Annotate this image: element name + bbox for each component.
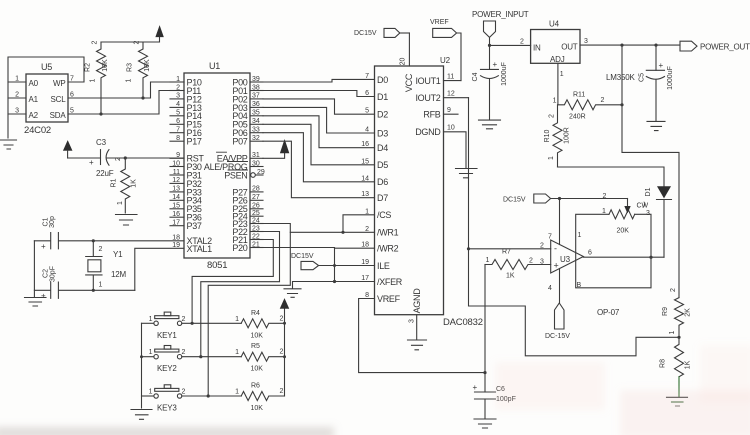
svg-text:P20: P20 [232, 243, 247, 253]
svg-text:D5: D5 [377, 160, 388, 170]
node OUT/C5 junction [654, 44, 657, 47]
ground (C6) [474, 419, 496, 428]
ground (keys) [131, 410, 152, 420]
svg-text:+: + [41, 292, 46, 301]
U1 pin 12 P32 [170, 177, 202, 189]
svg-text:10K: 10K [144, 59, 151, 72]
svg-text:1: 1 [560, 71, 564, 78]
svg-text:19: 19 [172, 242, 180, 249]
svg-text:DC15V: DC15V [291, 253, 314, 260]
svg-text:D0: D0 [377, 75, 388, 85]
svg-text:100R: 100R [564, 127, 571, 144]
node IOUT2 branch junction [467, 247, 470, 250]
svg-text:36: 36 [252, 101, 260, 108]
U1 pin 36 P03 [232, 101, 263, 113]
wire feedback divider branch [469, 249, 679, 356]
wire bus P04 to D4 [263, 116, 375, 148]
svg-text:240R: 240R [569, 114, 586, 121]
wire R2/R3 tops to VCC [101, 37, 160, 42]
svg-text:ILE: ILE [377, 261, 390, 271]
svg-text:2: 2 [176, 84, 180, 91]
svg-text:7: 7 [70, 76, 74, 83]
U3 pin 7 supply wire [548, 199, 560, 245]
svg-text:3: 3 [176, 93, 180, 100]
U2 pin 6 D1 (label) [365, 90, 388, 102]
wire bus P02 to D2 [263, 99, 375, 114]
switch KEY3 [142, 385, 242, 413]
node C6/R7 junction [483, 371, 486, 374]
svg-text:-: - [554, 244, 557, 254]
svg-text:2: 2 [115, 157, 122, 161]
svg-text:CW: CW [637, 203, 649, 210]
svg-text:1: 1 [602, 208, 606, 215]
svg-text:6: 6 [70, 92, 74, 99]
svg-text:2: 2 [182, 316, 186, 323]
svg-text:1: 1 [117, 201, 124, 205]
svg-text:R5: R5 [251, 343, 260, 350]
svg-text:22: 22 [252, 233, 260, 240]
U1 pin 26 P25 [232, 203, 263, 215]
svg-text:IN: IN [533, 44, 541, 53]
U2 pin 5 D2 (label) [365, 108, 388, 120]
svg-text:1: 1 [669, 330, 676, 334]
capacitor C1 30p [34, 216, 184, 251]
svg-text:DC15V: DC15V [354, 30, 377, 37]
svg-text:C4: C4 [472, 72, 479, 81]
capacitor C4 1000uF [472, 60, 508, 120]
U5 pin 3 stub [8, 108, 26, 115]
resistor R4 10K [235, 310, 284, 340]
svg-text:11: 11 [173, 169, 180, 176]
wire bus P03 to D3 [263, 107, 375, 133]
svg-text:1K: 1K [131, 179, 138, 188]
svg-text:14: 14 [172, 194, 180, 201]
wire P22 to key2 rail [201, 232, 280, 357]
svg-text:2: 2 [549, 114, 556, 118]
svg-text:37: 37 [252, 93, 260, 100]
svg-text:1000uF: 1000uF [667, 66, 674, 90]
svg-text:15: 15 [361, 158, 369, 165]
U1 pin 38 P01 [232, 84, 263, 96]
connector DC15V (mid) [291, 253, 375, 270]
svg-text:+: + [41, 242, 46, 251]
U2 pin 12 IOUT2 [415, 91, 468, 104]
U2 pin 10 DGND [415, 125, 466, 168]
svg-text:KEY3: KEY3 [157, 404, 177, 413]
svg-text:1000uF: 1000uF [501, 62, 508, 86]
svg-text:P37: P37 [187, 221, 202, 231]
node KEY2 left rail junction [140, 355, 143, 358]
svg-text:PSEN: PSEN [224, 170, 247, 180]
svg-text:AGND: AGND [412, 288, 422, 314]
resistor R11 240R [553, 92, 622, 121]
node tie/ILE junction [333, 264, 336, 267]
wire /CS branch [343, 215, 375, 233]
capacitor C6 100pF [473, 373, 516, 419]
connector POWER_INPUT [472, 10, 529, 69]
svg-text:R1: R1 [111, 178, 118, 187]
resistor R7 1K [485, 249, 551, 280]
wire /XFER to ground [293, 282, 375, 289]
svg-text:30p: 30p [49, 216, 56, 228]
svg-text:LM350K: LM350K [606, 73, 635, 82]
svg-text:D7: D7 [377, 193, 388, 203]
svg-text:VREF: VREF [377, 294, 401, 304]
svg-text:35: 35 [252, 110, 260, 117]
U1 pin 30 ALE/PROG [204, 160, 263, 172]
svg-text:13: 13 [172, 186, 180, 193]
U1 pin 29 PSEN [224, 169, 265, 181]
svg-text:1: 1 [235, 349, 239, 356]
U2 pin 15 D5 (label) [361, 158, 388, 170]
resistor R2 10K pull-up [85, 40, 110, 114]
svg-text:1: 1 [176, 76, 180, 83]
wire SDA net: U5 pin5 to P11 [68, 91, 184, 115]
U1 pin 14 P34 [170, 194, 202, 206]
svg-text:17: 17 [361, 275, 369, 282]
svg-text:1: 1 [553, 98, 557, 105]
svg-text:XTAL1: XTAL1 [187, 244, 213, 254]
svg-text:R7: R7 [502, 249, 511, 256]
svg-text:34: 34 [252, 118, 260, 125]
U1 pin 9 RST [170, 152, 204, 164]
svg-text:13: 13 [361, 191, 369, 198]
node POWER_INPUT/IN junction [488, 44, 491, 47]
U1 pin 21 P20 [232, 241, 263, 253]
U1 pin 6 P15 [170, 118, 202, 130]
connector POWER_OUT [680, 41, 750, 51]
svg-text:OP-07: OP-07 [597, 308, 620, 317]
svg-text:R6: R6 [251, 383, 260, 390]
U1 pin 5 P14 [170, 110, 202, 122]
node crystal top junction [92, 239, 95, 242]
eeprom U5 24C02 [24, 62, 68, 136]
svg-text:IOUT2: IOUT2 [415, 93, 440, 103]
svg-text:1: 1 [149, 349, 153, 356]
svg-text:4: 4 [548, 285, 552, 292]
U1 pin 28 P27 [232, 186, 263, 198]
svg-text:C2: C2 [43, 269, 50, 278]
node R1/RST junction [124, 156, 127, 159]
wire XTAL1 [135, 248, 184, 290]
node OUT/branch junction [620, 44, 623, 47]
svg-text:1: 1 [149, 389, 153, 396]
svg-text:2: 2 [529, 258, 533, 265]
svg-text:10K: 10K [251, 332, 264, 339]
svg-text:R9: R9 [662, 307, 669, 316]
svg-text:24C02: 24C02 [24, 125, 51, 136]
U1 pin 8 P17 [170, 135, 202, 147]
svg-text:POWER_INPUT: POWER_INPUT [472, 10, 529, 19]
svg-text:P17: P17 [187, 137, 202, 147]
power VCC arrow (top left) [156, 26, 164, 37]
U1 pin 7 P16 [170, 127, 202, 139]
svg-text:VCC: VCC [404, 73, 414, 92]
svg-text:3: 3 [15, 108, 19, 115]
connector VREF [430, 19, 461, 81]
svg-text:+: + [554, 261, 559, 271]
svg-text:DC-15V: DC-15V [545, 333, 570, 340]
svg-text:R2: R2 [85, 63, 92, 72]
U1 pin 11 P31 [170, 169, 202, 181]
svg-text:5: 5 [365, 108, 369, 115]
svg-text:1: 1 [90, 78, 97, 82]
svg-text:1: 1 [578, 232, 582, 239]
wire R10 to D1 anode [558, 167, 665, 187]
svg-text:KEY1: KEY1 [157, 331, 177, 340]
power VCC arrow (EA pin) [263, 140, 289, 158]
U1 pin 2 P11 [170, 84, 201, 96]
svg-text:2: 2 [540, 243, 544, 250]
ground (XFER net) [284, 289, 301, 298]
U1 pin 16 P36 [170, 211, 202, 223]
U1 pin 15 P35 [170, 203, 202, 215]
U3 pin 4 supply wire [548, 269, 560, 304]
U1 pin 37 P02 [232, 93, 263, 105]
svg-text:6: 6 [588, 250, 592, 257]
svg-text:U1: U1 [209, 61, 220, 71]
U1 pin 24 P23 [232, 217, 263, 229]
svg-text:16: 16 [361, 141, 369, 148]
svg-text:10K: 10K [102, 59, 109, 72]
U5 pin 1 stub [8, 76, 26, 83]
U5 pin 2 stub [8, 92, 26, 99]
resistor R8 1K [660, 337, 692, 377]
svg-text:DC15V: DC15V [503, 197, 526, 204]
wire R7 pin1 to VREF/C6 node [484, 265, 486, 373]
svg-text:2: 2 [603, 193, 607, 200]
svg-text:/XFER: /XFER [377, 277, 403, 287]
svg-text:R10: R10 [544, 129, 551, 142]
svg-text:11: 11 [447, 74, 454, 81]
node R2/SDA junction [99, 112, 102, 115]
svg-text:POWER_OUT: POWER_OUT [700, 43, 750, 52]
svg-text:U5: U5 [41, 62, 52, 72]
wire bus P06 to D6 [263, 133, 375, 182]
svg-text:1: 1 [235, 316, 239, 323]
U1 pin 34 P05 [232, 118, 263, 130]
svg-text:28: 28 [252, 186, 260, 193]
svg-text:2: 2 [92, 40, 99, 44]
svg-text:4: 4 [176, 101, 180, 108]
potentiometer 20K [602, 193, 650, 235]
svg-text:12: 12 [447, 91, 455, 98]
svg-text:/WR1: /WR1 [377, 228, 399, 238]
wire bus P07 to D7 [263, 141, 375, 198]
node output/feedback junction [649, 256, 652, 259]
wire U4 OUT to POWER_OUT [580, 38, 680, 45]
resistor R5 10K [235, 343, 284, 373]
wire to U4 IN [490, 39, 531, 46]
U1 pin 18 XTAL2 [172, 234, 212, 246]
svg-text:1: 1 [486, 257, 490, 264]
U5 pin 7 WP loop wire to left rail [8, 57, 84, 138]
U2 pin 14 D6 (label) [361, 175, 388, 187]
svg-text:17: 17 [172, 220, 180, 227]
svg-text:R8: R8 [660, 359, 667, 368]
wire bus P00 to D0 [263, 79, 375, 82]
svg-text:25: 25 [252, 210, 260, 217]
svg-text:26: 26 [252, 203, 260, 210]
svg-text:7: 7 [176, 127, 180, 134]
svg-text:1: 1 [126, 78, 133, 82]
svg-text:DAC0832: DAC0832 [443, 317, 483, 328]
svg-text:20: 20 [400, 58, 407, 66]
switch KEY2 [142, 346, 242, 374]
U1 pin 35 P04 [232, 110, 263, 122]
svg-text:1: 1 [15, 76, 19, 83]
svg-text:14: 14 [361, 175, 369, 182]
resistor R1 1K [111, 157, 138, 213]
svg-text:D6: D6 [377, 177, 388, 187]
svg-text:2: 2 [280, 315, 284, 322]
svg-text:2: 2 [182, 349, 186, 356]
node R11/branch junction [620, 103, 623, 106]
wire P20 to /WR2 [263, 247, 375, 250]
svg-text:6: 6 [365, 90, 369, 97]
U1 pin 13 P33 [170, 186, 202, 198]
wire pull-up rail [284, 308, 286, 396]
node CS/WR1 junction [341, 231, 344, 234]
svg-text:23: 23 [252, 225, 260, 232]
svg-text:+: + [89, 158, 94, 167]
wire VREF pin to C6 node [359, 299, 485, 373]
wire bus P01 to D1 [263, 91, 375, 97]
node KEY3/P23 junction [207, 394, 210, 397]
svg-text:2: 2 [182, 389, 186, 396]
svg-text:2: 2 [280, 388, 284, 395]
connector DC-15V [545, 303, 570, 340]
svg-text:9: 9 [176, 152, 180, 159]
U2 pin 3 AGND [409, 288, 423, 339]
U2 pin 17 /XFER (label) [361, 275, 403, 287]
svg-text:18: 18 [361, 242, 369, 249]
U2 pin 16 D4 (label) [361, 141, 388, 153]
resistor R9 2K [662, 288, 692, 337]
switch KEY1 [142, 312, 242, 340]
U2 pin 19 ILE (label) [361, 259, 390, 271]
node R9/R8 junction [677, 336, 680, 339]
svg-text:Y1: Y1 [113, 250, 123, 259]
svg-text:33: 33 [252, 127, 260, 134]
U2 pin 1 /CS (label) [365, 208, 391, 220]
svg-text:SCL: SCL [51, 95, 67, 104]
node R3/SCL junction [141, 96, 144, 99]
U1 pin 10 P30 [170, 160, 202, 172]
U1 pin 23 P22 [232, 225, 263, 237]
svg-text:/CS: /CS [377, 210, 391, 220]
svg-text:5: 5 [70, 108, 74, 115]
svg-text:10K: 10K [251, 405, 264, 412]
dac U2 DAC0832 [375, 56, 483, 328]
svg-text:3: 3 [409, 319, 416, 323]
ground (C1/C2) [25, 290, 47, 306]
svg-text:1: 1 [99, 282, 103, 289]
svg-text:12M: 12M [111, 270, 126, 279]
ground (AGND) [408, 340, 427, 350]
svg-text:18: 18 [172, 234, 180, 241]
U2 pin 7 D0 (label) [365, 73, 388, 85]
svg-text:38: 38 [252, 84, 260, 91]
svg-text:WP: WP [53, 79, 66, 88]
svg-text:A0: A0 [29, 79, 39, 88]
svg-text:9: 9 [447, 107, 451, 114]
svg-text:U4: U4 [549, 20, 560, 29]
svg-text:30pF: 30pF [50, 266, 57, 282]
svg-text:SDA: SDA [50, 111, 67, 120]
U1 pin 32 P07 [232, 135, 263, 147]
svg-text:+: + [493, 60, 498, 69]
U1 pin 25 P24 [232, 210, 263, 222]
svg-text:U3: U3 [560, 255, 571, 264]
svg-text:1: 1 [235, 389, 239, 396]
svg-text:22uF: 22uF [96, 169, 114, 178]
svg-text:RFB: RFB [423, 110, 440, 120]
svg-text:D4: D4 [377, 143, 388, 153]
svg-text:C3: C3 [96, 138, 107, 147]
mcu U1 8051 [184, 61, 250, 271]
wire SCL net: U5 pin6 to P10 [68, 82, 184, 99]
svg-text:C5: C5 [639, 73, 646, 82]
U2 pin 9 RFB [423, 107, 458, 120]
U1 pin 27 P26 [232, 194, 263, 206]
wire IOUT2 to op-amp inverting input [469, 98, 551, 249]
U2 pin 18 /WR2 (label) [361, 242, 398, 254]
feedback box labels [577, 232, 582, 289]
ground (DGND) [456, 169, 478, 178]
wire key common left rail [141, 323, 143, 408]
node R5 right rail junction [283, 355, 286, 358]
ground (U5 left rail) [1, 140, 17, 149]
svg-text:U2: U2 [440, 56, 451, 65]
ground (C5) [647, 121, 665, 130]
U2 pin 20 VCC [400, 33, 415, 92]
connector DC15V (op-amp supply) [503, 194, 628, 204]
svg-text:32: 32 [252, 135, 260, 142]
svg-text:1: 1 [149, 316, 153, 323]
U1 pin 3 P12 [170, 93, 202, 105]
svg-text:2: 2 [99, 246, 103, 253]
svg-text:6: 6 [176, 118, 180, 125]
svg-text:1: 1 [365, 208, 369, 215]
U1 pin 17 P37 [170, 220, 202, 232]
U1 pin 4 P13 [170, 101, 202, 113]
svg-text:ADJ: ADJ [550, 55, 565, 64]
svg-text:R4: R4 [251, 310, 260, 317]
svg-text:P07: P07 [232, 137, 247, 147]
node crystal bottom junction [92, 289, 95, 292]
svg-text:IOUT1: IOUT1 [415, 76, 440, 86]
svg-text:1: 1 [548, 156, 555, 160]
svg-text:A2: A2 [29, 111, 39, 120]
svg-text:8: 8 [176, 135, 180, 142]
U1 pin 22 P21 [232, 233, 263, 245]
svg-text:8051: 8051 [207, 260, 227, 271]
svg-text:R3: R3 [127, 63, 134, 72]
svg-text:20K: 20K [617, 228, 630, 235]
wire feedback loop box [576, 214, 651, 287]
svg-text:R11: R11 [573, 92, 585, 99]
U1 pin 39 P00 [232, 76, 263, 88]
resistor R3 10K pull-up [126, 40, 152, 98]
wire R8 to ground (green lead) [678, 377, 680, 397]
op-amp U3 OP-07 [551, 240, 620, 317]
svg-text:+: + [473, 383, 478, 392]
power VCC arrow (RST circuit) [63, 141, 72, 158]
svg-text:3: 3 [646, 210, 650, 217]
svg-text:2: 2 [365, 226, 369, 233]
U3 pin 2 label [540, 243, 544, 250]
